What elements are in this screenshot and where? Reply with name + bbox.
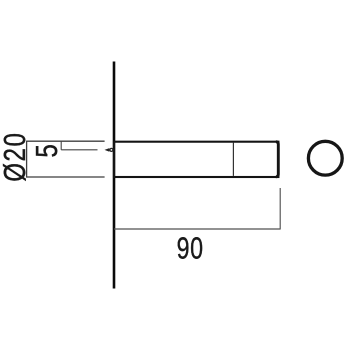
svg-text:Ø20: Ø20 xyxy=(0,131,32,181)
svg-text:90: 90 xyxy=(177,230,204,265)
svg-text:5: 5 xyxy=(29,144,64,157)
